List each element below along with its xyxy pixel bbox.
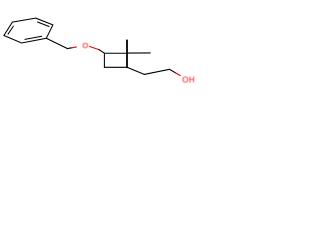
bond cyclobutane C1 to chain CH2 [127, 67, 144, 74]
benzene ring [4, 18, 53, 43]
benzene double bond (bottom edge inner line) [25, 36, 42, 39]
cyclobutane ring top edge [104, 52, 127, 54]
cyclobutane ring left edge [103, 53, 105, 67]
benzene double bond (left edge inner line) [8, 26, 13, 34]
bond chain CH2 to hydroxyl O (red half) [176, 73, 181, 76]
bond chain CH2 to hydroxyl O (black half) [170, 69, 176, 73]
cyclobutane ring right edge [126, 53, 128, 67]
bond chain CH2 to CH2 [144, 69, 169, 74]
svg-text:OH: OH [182, 76, 195, 85]
methyl bond (vertical, on C2) [126, 40, 128, 53]
bond phenyl to benzylic CH2 [46, 38, 67, 48]
cyclobutane ring bottom edge [104, 66, 127, 68]
methyl bond (horizontal, on C2) [127, 52, 150, 54]
bond ether O to cyclobutane C3 (black half) [99, 50, 105, 54]
benzene double bond (top-right edge inner line) [38, 22, 50, 27]
svg-text:O: O [82, 41, 88, 50]
bond benzylic CH2 to ether O (black half) [68, 47, 72, 50]
bond benzylic CH2 to ether O (red half) [72, 46, 77, 49]
bond ether O to cyclobutane C3 (red half) [90, 47, 99, 50]
